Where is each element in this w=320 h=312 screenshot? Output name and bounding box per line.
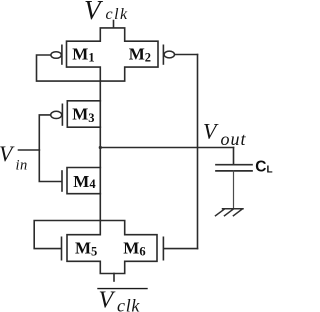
wire M5 gate loop <box>34 221 100 249</box>
wire center node M1/M2 to M3 <box>99 81 101 101</box>
transistor M4 body box <box>67 168 100 194</box>
overline of V_clk-bar <box>97 288 147 290</box>
ground hatch 1 <box>216 209 225 216</box>
svg-text:clk: clk <box>117 296 140 312</box>
transistor M5 gate bar <box>61 237 63 259</box>
wire M2 gate to right rail <box>175 54 198 56</box>
ground hatch 2 <box>225 209 234 216</box>
capacitor C_L bottom plate <box>216 170 252 172</box>
transistor M4 gate bar <box>61 171 63 191</box>
wire M6 gate <box>164 248 198 250</box>
transistor pair M5/M6 body outline <box>67 221 157 274</box>
transistor M2 gate bar <box>162 45 164 64</box>
transistor M6 gate bar <box>162 237 164 259</box>
svg-text:in: in <box>16 158 28 174</box>
wire M1 gate to internal node <box>37 55 101 81</box>
transistor M3 gate bar <box>61 104 63 125</box>
ground hatch 3 <box>233 209 242 216</box>
wire right rail (M2 gate to M6 gate) <box>197 55 199 249</box>
transistor M1 gate bar <box>61 45 63 64</box>
M1 gate bubble <box>51 52 61 59</box>
svg-text:clk: clk <box>106 6 129 23</box>
wire capacitor top lead <box>233 148 235 165</box>
wire V_in input <box>19 149 40 151</box>
wire V_clk-bar lead <box>113 274 115 282</box>
M3 gate bubble <box>51 111 62 118</box>
wire V_in to M3 gate <box>39 115 51 150</box>
wire V_clk lead <box>113 21 115 28</box>
junction output node <box>99 146 102 149</box>
wire output node to capacitor <box>100 147 233 149</box>
transistor pair M1/M2 body outline <box>67 28 159 81</box>
M2 gate bubble <box>164 51 174 58</box>
wire M4 source down to M5/M6 node <box>99 194 101 221</box>
ground symbol bar <box>223 208 244 210</box>
wire M3 to M4 (output node) <box>99 127 101 167</box>
svg-text:V: V <box>99 288 116 312</box>
svg-text:out: out <box>221 129 247 149</box>
capacitor C_L top plate <box>216 164 252 166</box>
transistor M3 body box <box>67 101 100 127</box>
wire capacitor bottom lead <box>233 171 235 209</box>
wire V_in to M4 gate <box>39 150 61 182</box>
